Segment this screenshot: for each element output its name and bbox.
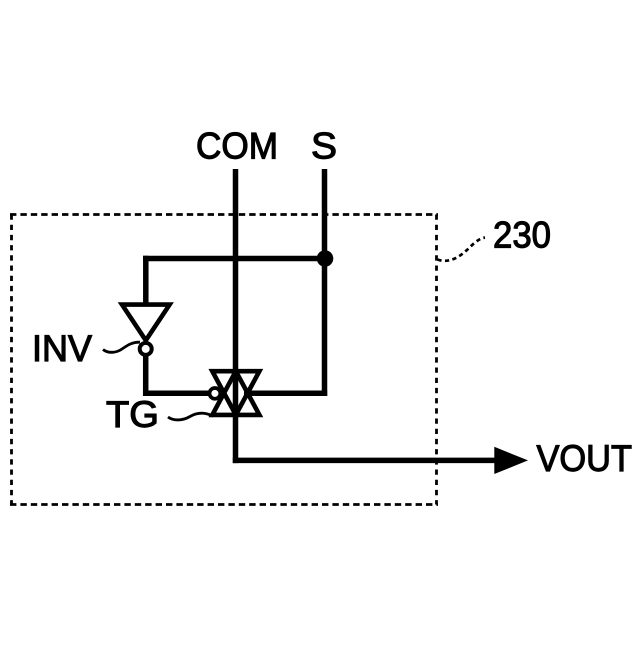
leader line to 230 (dashed) [438, 238, 486, 261]
svg-text:TG: TG [106, 394, 159, 435]
TG control bubble [210, 388, 221, 399]
wire VOUT output (horizontal) [233, 458, 496, 464]
wire S vertical [322, 169, 328, 396]
svg-text:230: 230 [493, 215, 551, 256]
wire inverter output to TG (down then right) [146, 356, 209, 393]
dashed box 230 top border [10, 213, 438, 216]
wire inverter input vertical [143, 256, 149, 307]
dashed box 230 bottom border [10, 503, 438, 506]
svg-text:INV: INV [32, 328, 92, 369]
transmission gate TG lower triangle [212, 371, 259, 415]
wire junction to inverter branch (horizontal) [143, 256, 325, 262]
inverter INV triangle [122, 305, 170, 341]
inverter INV output bubble [140, 343, 152, 355]
junction dot on S line [317, 250, 334, 267]
leader squiggle INV to bubble [103, 342, 140, 352]
leader squiggle TG to symbol [168, 413, 214, 420]
transmission gate TG upper triangle [212, 371, 259, 415]
svg-text:S: S [311, 126, 337, 167]
wire COM vertical [233, 169, 239, 463]
dashed box 230 left border [10, 215, 13, 505]
VOUT arrowhead [494, 447, 528, 474]
svg-text:VOUT: VOUT [537, 438, 633, 479]
wire TG to S line (horizontal) [244, 391, 327, 397]
svg-text:COM: COM [196, 126, 278, 167]
dashed box 230 right border [435, 215, 438, 505]
